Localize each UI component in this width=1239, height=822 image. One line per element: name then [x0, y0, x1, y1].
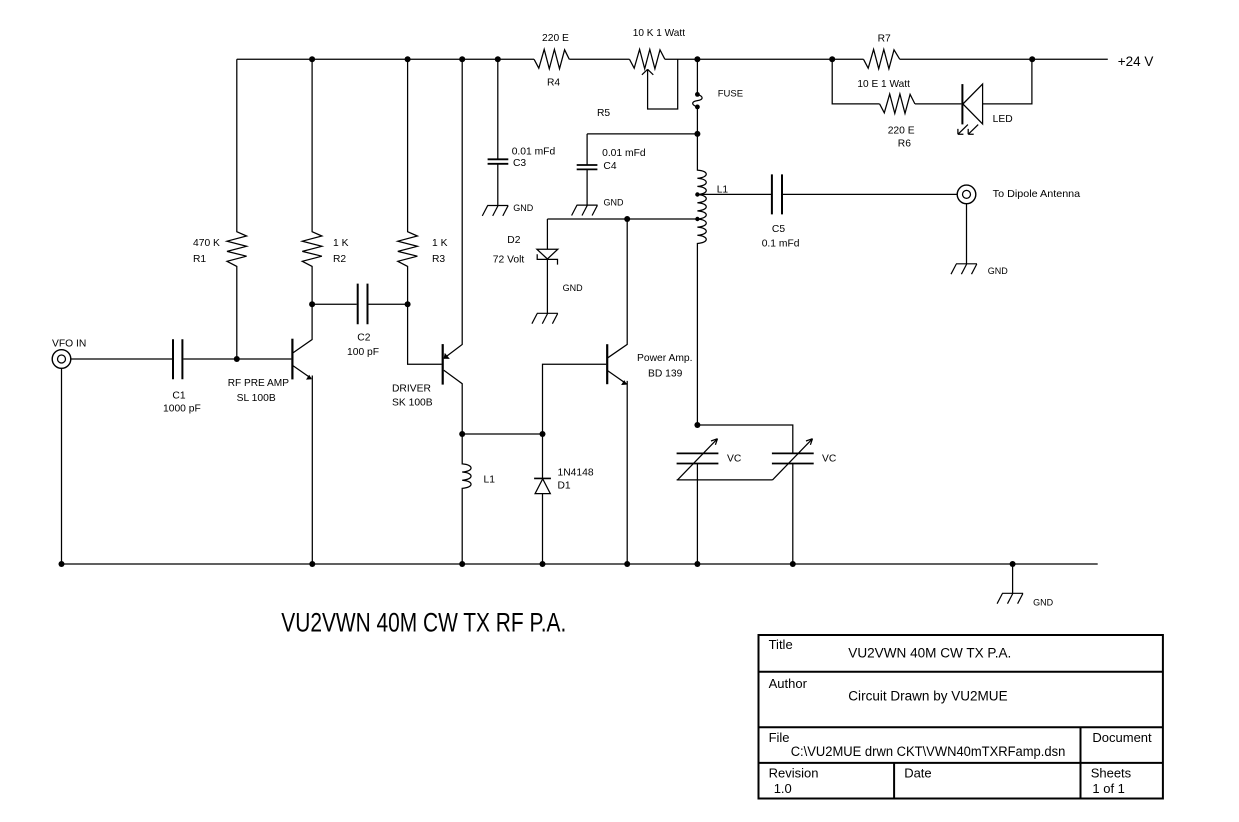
resistor R1 470K (vertical, with leads): [227, 59, 247, 359]
svg-text:1.0: 1.0: [774, 781, 792, 796]
svg-text:L1: L1: [484, 474, 496, 485]
wire D1 node to Q3 base: [543, 364, 607, 434]
svg-text:100 pF: 100 pF: [347, 347, 379, 358]
svg-text:10 E 1 Watt: 10 E 1 Watt: [857, 79, 910, 90]
potentiometer R5 10K body (horizontal in rail): [630, 49, 665, 68]
svg-text:GND: GND: [1033, 598, 1054, 608]
svg-text:GND: GND: [513, 203, 534, 213]
svg-text:0.01 mFd: 0.01 mFd: [512, 146, 556, 157]
node rail / LED branch left: [829, 56, 835, 62]
inductor L1 (tapped coil on +24V feed): [697, 134, 706, 425]
ground symbol at C3: [482, 206, 508, 216]
variable capacitor VC2 arrow: [773, 439, 813, 480]
svg-text:220 E: 220 E: [542, 33, 569, 44]
node rail / LED branch right: [1029, 56, 1035, 62]
transistor Q3 base bar: [606, 344, 608, 384]
wire VC top connector: [697, 425, 792, 453]
transistor Q3 emitter limb: [607, 370, 627, 564]
svg-text:C:\VU2MUE drwn CKT\VWN40mTXRFa: C:\VU2MUE drwn CKT\VWN40mTXRFamp.dsn: [791, 744, 1066, 759]
zener diode D2 triangle: [537, 249, 558, 259]
svg-text:GND: GND: [988, 266, 1009, 276]
node L1 tap upper: [695, 192, 699, 196]
wire ground rail to ground symbol: [1012, 564, 1014, 593]
variable capacitor VC1 arrow: [678, 439, 718, 480]
title block divider Author/File: [759, 726, 1163, 728]
variable capacitor VC2 plates: [772, 453, 814, 463]
variable capacitor VC1 bottom lead: [696, 464, 698, 565]
variable capacitor VC1 plates: [677, 453, 719, 463]
node ground rail at VFO: [59, 561, 65, 567]
svg-text:Author: Author: [769, 676, 808, 691]
node ground rail at VC1: [694, 561, 700, 567]
diode D1 top lead: [542, 434, 544, 478]
wire C4 top to fuse node: [587, 133, 697, 135]
title block divider Document column: [1080, 727, 1082, 798]
wire +24V rail: [237, 58, 1108, 60]
svg-text:Circuit Drawn by VU2MUE: Circuit Drawn by VU2MUE: [848, 688, 1007, 703]
wire VFO connector to ground rail: [61, 368, 63, 564]
transistor Q1 emitter limb: [293, 366, 312, 564]
transistor Q1 collector limb: [292, 304, 312, 353]
svg-text:Date: Date: [904, 766, 931, 781]
VFO input connector inner circle: [58, 355, 66, 363]
node rail / R2: [309, 56, 315, 62]
title block divider File/Revision: [759, 762, 1163, 764]
capacitor C2 plates: [358, 284, 368, 325]
inductor L1b (driver load coil): [462, 434, 471, 564]
svg-text:File: File: [769, 730, 790, 745]
svg-text:R6: R6: [898, 138, 911, 149]
svg-text:Power Amp.: Power Amp.: [637, 353, 693, 364]
variable capacitor VC2 bottom lead: [792, 464, 794, 565]
LED D3 emission arrow 1: [958, 125, 968, 135]
wire R3 node to Q2 base: [408, 304, 442, 364]
potentiometer R5 wiper arrow and loop to right terminal: [642, 59, 678, 109]
svg-text:BD 139: BD 139: [648, 368, 683, 379]
ground symbol at C4: [572, 205, 598, 215]
zener diode D2 top lead: [546, 219, 548, 249]
transistor Q2 emitter arrowhead: [444, 353, 450, 359]
fuse F1 terminal blob bottom: [695, 105, 700, 110]
svg-text:C1: C1: [172, 390, 185, 401]
svg-text:To Dipole Antenna: To Dipole Antenna: [993, 189, 1081, 200]
wire antenna connector to ground: [966, 204, 968, 264]
diode D1 bottom lead: [542, 494, 544, 564]
wire L1 tap to C5: [697, 193, 772, 195]
svg-text:R2: R2: [333, 254, 346, 265]
LED D3 cathode bar: [961, 84, 963, 124]
svg-text:1N4148: 1N4148: [558, 468, 594, 479]
title block divider Date column: [893, 763, 895, 799]
node ground rail at L1b: [459, 561, 465, 567]
resistor R7 10E (horizontal in rail): [864, 49, 900, 68]
node ground rail at Q3 emitter: [624, 561, 630, 567]
svg-text:C3: C3: [513, 158, 526, 169]
svg-text:C2: C2: [357, 333, 370, 344]
svg-text:10 K 1 Watt: 10 K 1 Watt: [633, 28, 685, 39]
svg-text:VC: VC: [822, 453, 837, 464]
transistor Q2 emitter limb (to +24V rail): [444, 59, 462, 358]
wire ground rail: [62, 563, 1098, 565]
node C1 / R1 junction: [234, 356, 240, 362]
svg-text:RF PRE AMP: RF PRE AMP: [228, 378, 289, 389]
resistor R4 220E (horizontal in +24V rail): [534, 49, 569, 68]
svg-text:FUSE: FUSE: [718, 89, 743, 100]
transistor Q1 base bar: [291, 339, 293, 380]
svg-text:R1: R1: [193, 254, 206, 265]
transistor Q2 base bar: [442, 344, 444, 385]
svg-text:VU2VWN 40M CW TX P.A.: VU2VWN 40M CW TX P.A.: [848, 645, 1011, 660]
ground symbol at ground rail: [997, 593, 1023, 603]
svg-text:D1: D1: [558, 480, 571, 491]
svg-text:LED: LED: [993, 114, 1013, 125]
transistor Q3 emitter arrowhead: [621, 380, 627, 385]
svg-text:SK 100B: SK 100B: [392, 397, 433, 408]
resistor R2 1K (vertical, with leads): [302, 59, 322, 304]
svg-text:Title: Title: [769, 637, 793, 652]
node rail / R3: [405, 56, 411, 62]
capacitor C3 plates: [488, 159, 509, 164]
svg-text:220 E: 220 E: [888, 125, 915, 136]
zener diode D2 bottom lead: [546, 259, 548, 313]
wire R2/Q1 collector node to C2: [312, 303, 357, 305]
svg-text:1 K: 1 K: [333, 238, 349, 249]
svg-text:D2: D2: [507, 235, 520, 246]
svg-text:1000 pF: 1000 pF: [163, 404, 201, 415]
svg-text:VFO IN: VFO IN: [52, 339, 86, 350]
VFO input connector outer circle: [52, 350, 71, 369]
SECTION: title block: [759, 635, 1163, 799]
svg-text:+24 V: +24 V: [1118, 54, 1154, 69]
wire C1 to Q1 base: [183, 358, 291, 360]
svg-text:GND: GND: [563, 283, 584, 293]
svg-text:0.01 mFd: 0.01 mFd: [602, 148, 646, 159]
node rail / Q2 emitter: [459, 56, 465, 62]
wire R6 to LED: [915, 103, 962, 105]
svg-text:VC: VC: [727, 453, 742, 464]
wire C5 to antenna connector: [782, 193, 957, 195]
antenna connector outer circle: [957, 185, 976, 204]
svg-text:SL 100B: SL 100B: [237, 393, 276, 404]
svg-text:C5: C5: [772, 224, 785, 235]
svg-text:R3: R3: [432, 254, 445, 265]
transistor Q2 collector limb: [444, 370, 462, 434]
svg-text:GND: GND: [604, 198, 625, 208]
svg-text:Sheets: Sheets: [1091, 766, 1132, 781]
antenna connector inner circle: [963, 190, 971, 198]
node L1 tap lower: [695, 217, 699, 221]
svg-text:R7: R7: [878, 34, 891, 45]
svg-text:Document: Document: [1092, 730, 1152, 745]
node D1 / Q3 base riser: [540, 431, 546, 437]
transistor Q3 collector limb (to D2/L1 line): [607, 219, 627, 358]
wire VFO connector to C1: [71, 358, 172, 360]
wire VC arrows bottom connector: [677, 479, 773, 481]
node VC top tee: [694, 422, 700, 428]
svg-text:1 of 1: 1 of 1: [1092, 781, 1125, 796]
node rail / fuse: [694, 56, 700, 62]
ground symbol at D2: [532, 313, 558, 323]
diode D1 cathode bar: [534, 477, 551, 479]
LED D3 triangle: [963, 84, 983, 124]
node rail / C3: [495, 56, 501, 62]
transistor Q1 emitter arrowhead: [306, 375, 312, 380]
svg-text:470 K: 470 K: [193, 238, 220, 249]
node ground rail at GND symbol: [1010, 561, 1016, 567]
svg-text:0.1 mFd: 0.1 mFd: [762, 238, 800, 249]
resistor R3 1K (vertical, with leads): [398, 59, 418, 304]
node ground rail at Q1 emitter: [309, 561, 315, 567]
resistor R6 220E (horizontal): [880, 94, 915, 113]
wire LED branch left drop: [832, 59, 879, 104]
diode D1 triangle: [535, 479, 550, 494]
capacitor C4 leads: [586, 134, 588, 205]
wire LED to rail right riser: [983, 59, 1032, 104]
node fuse / C4 / L1 junction: [694, 131, 700, 137]
fuse F1 leads: [696, 59, 698, 134]
node C2 right junction: [405, 301, 411, 307]
wire Q2 collector to D1 node: [462, 433, 542, 435]
fuse F1 element (S-curve): [693, 94, 702, 107]
node ground rail at D1: [540, 561, 546, 567]
wire C2 to R3 node: [369, 303, 408, 305]
LED D3 emission arrow 2: [968, 125, 978, 135]
svg-text:72 Volt: 72 Volt: [493, 254, 525, 265]
node ground rail at VC2: [790, 561, 796, 567]
svg-text:DRIVER: DRIVER: [392, 383, 431, 394]
fuse F1 terminal blob top: [695, 92, 700, 97]
svg-text:Revision: Revision: [769, 766, 819, 781]
capacitor C3 leads: [497, 59, 499, 205]
node C2 left junction: [309, 301, 315, 307]
capacitor C1 plates: [173, 339, 182, 379]
ground symbol at antenna: [951, 264, 977, 274]
svg-text:VU2VWN 40M CW TX RF P.A.: VU2VWN 40M CW TX RF P.A.: [281, 606, 566, 637]
svg-text:1 K: 1 K: [432, 238, 448, 249]
wire D2 / PA collector to L1 lower tap: [547, 218, 697, 220]
capacitor C4 plates: [577, 165, 598, 169]
node Q3 collector on D2 line: [624, 216, 630, 222]
title block outer border: [759, 635, 1163, 799]
svg-text:R4: R4: [547, 78, 560, 89]
node Q2 collector / L1b: [459, 431, 465, 437]
svg-text:C4: C4: [603, 161, 616, 172]
title block divider Title/Author: [759, 671, 1163, 673]
zener diode D2 cathode bar with hooks: [537, 254, 557, 264]
svg-text:R5: R5: [597, 108, 610, 119]
capacitor C5 plates: [772, 174, 782, 214]
